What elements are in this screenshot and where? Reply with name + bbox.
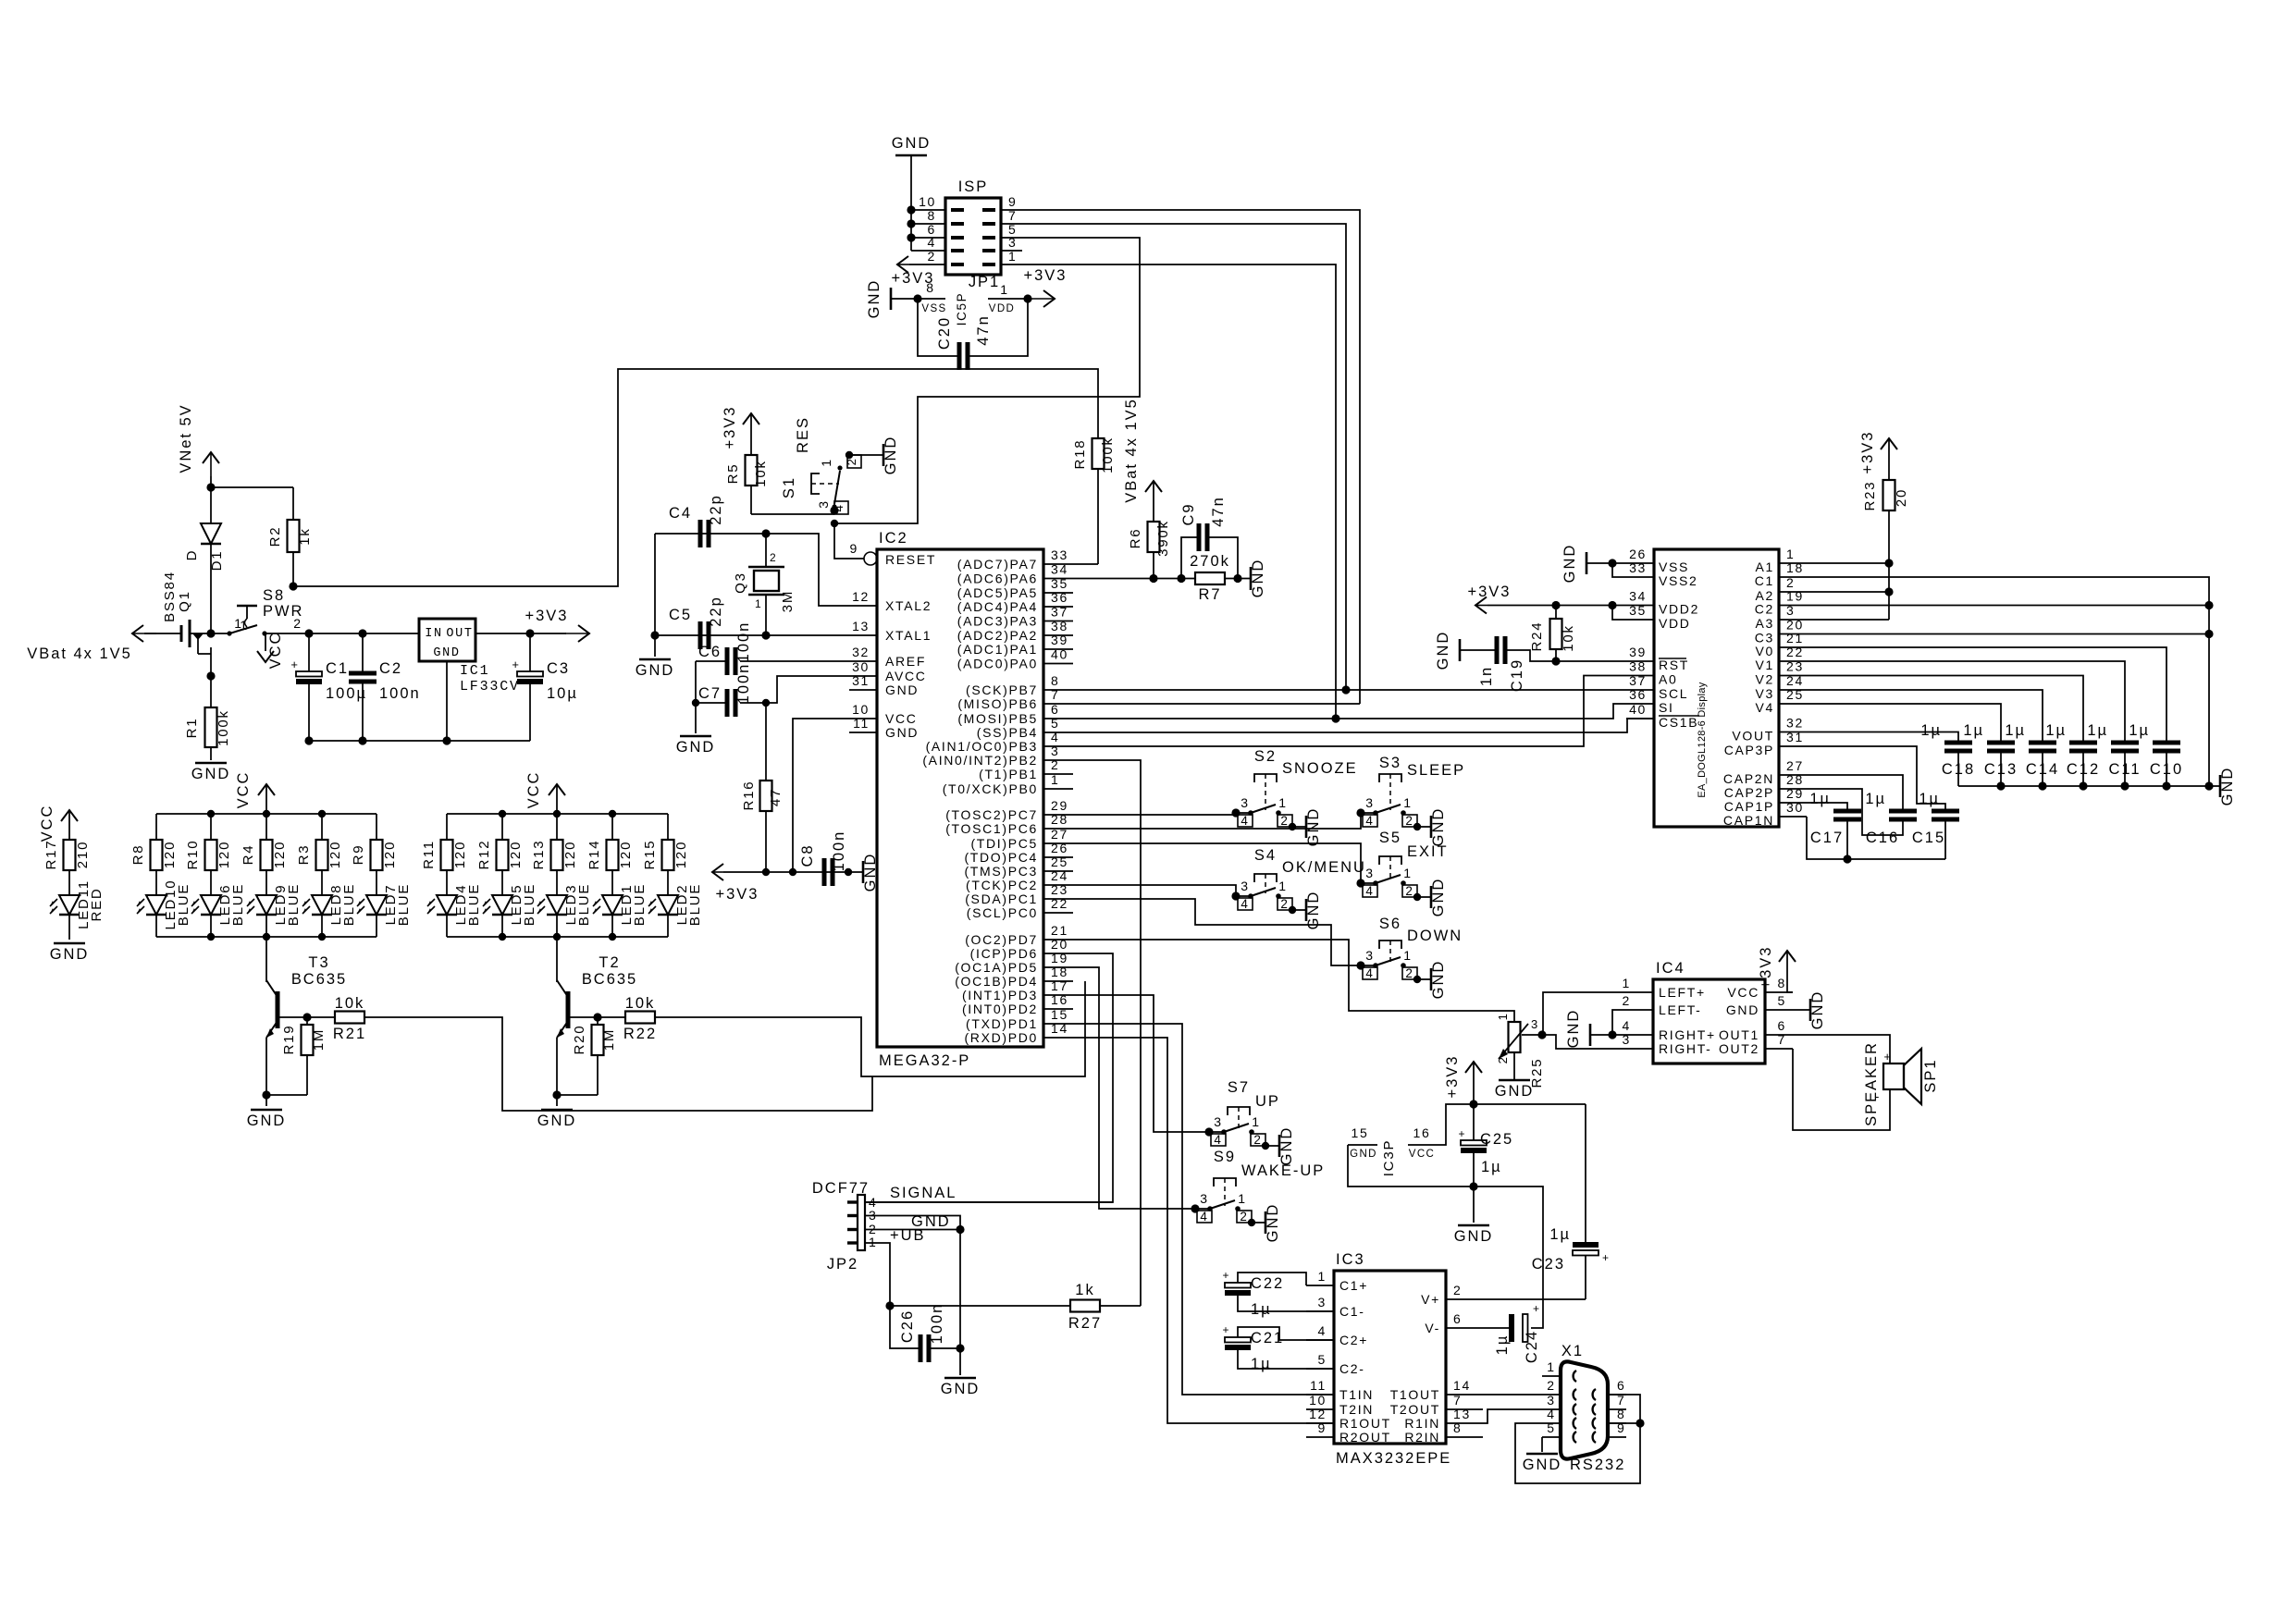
svg-text:GND: GND [537,1113,577,1129]
node VSS junction [1608,559,1616,567]
pin 32 VOUT display [1732,716,1807,744]
pin 15 (TXD)PD1 IC2 [966,1007,1073,1031]
svg-text:210: 210 [75,841,91,868]
svg-text:C17: C17 [1810,830,1844,846]
capacitor C17 [1809,791,1861,859]
pin 9 R2OUT IC3 [1306,1420,1391,1445]
wire PA6 row [1073,578,1195,580]
wire VCC16 to +3V3 [1438,1104,1586,1145]
svg-text:V0: V0 [1756,644,1774,658]
svg-text:9: 9 [1008,194,1017,209]
wire R22 to PD4 [655,981,1085,1076]
svg-text:9: 9 [1318,1420,1327,1435]
svg-text:R3: R3 [296,844,312,866]
net flag VCC down [257,632,284,670]
ground below R1 [191,763,231,782]
net flag +3V3 display [1468,584,1626,614]
switch S1 RES [781,416,883,514]
resistor R12 with LED LED5 [476,814,537,937]
capacitor C3 [512,633,577,741]
resistor R4 with LED LED9 [241,814,302,937]
node caps gnd rail [2162,781,2170,790]
svg-text:1: 1 [1051,772,1059,787]
svg-text:S3: S3 [1379,755,1401,771]
wire crystal gnd [654,534,656,635]
wire CAP2P to C16 bottom [1807,789,1903,835]
node C3 junction [2204,630,2213,638]
svg-text:2: 2 [1405,814,1413,828]
node SCK ISP junction [1341,685,1350,694]
svg-text:+3V3: +3V3 [716,886,759,903]
svg-text:C8: C8 [799,843,816,867]
svg-text:+: + [1223,1323,1230,1336]
svg-text:10k: 10k [1561,624,1576,652]
switch S2 SNOOZE [1231,748,1357,846]
svg-text:10: 10 [919,194,936,209]
wire PC7 to S2 [1073,814,1236,816]
svg-text:390k: 390k [1155,520,1171,557]
wire MOSI to SI [1073,704,1626,719]
svg-text:24: 24 [1051,868,1068,883]
svg-text:WAKE-UP: WAKE-UP [1241,1162,1325,1179]
svg-text:1k: 1k [297,527,313,545]
node VDD2 junction [1608,601,1616,609]
svg-text:2: 2 [845,458,858,466]
svg-text:C5: C5 [669,607,692,623]
svg-text:32: 32 [1786,716,1804,731]
svg-text:4: 4 [1318,1323,1327,1338]
svg-text:R23: R23 [1862,481,1878,511]
node C2 top [358,629,366,637]
svg-text:OUT1: OUT1 [1719,1027,1759,1042]
svg-text:18: 18 [1786,560,1804,575]
node LED rail top [263,810,270,818]
svg-text:100k: 100k [1100,436,1116,473]
svg-text:2: 2 [1405,884,1413,898]
svg-text:T2OUT: T2OUT [1390,1402,1440,1417]
pin 39 RST display [1626,645,1689,672]
net flag VCC for LED11 [39,805,78,842]
svg-text:GND: GND [1265,1203,1281,1243]
capacitor C9 [1180,496,1238,578]
ground below C25 [1454,1225,1494,1245]
svg-text:1µ: 1µ [1920,722,1942,739]
svg-text:GND: GND [883,436,899,475]
pin 3 A3 display [1756,603,1807,631]
svg-text:100n: 100n [929,1303,945,1345]
resistor R7 [1190,553,1251,603]
svg-text:RST: RST [1659,658,1689,672]
svg-text:(RXD)PD0: (RXD)PD0 [964,1030,1038,1045]
svg-text:GND: GND [1430,807,1447,847]
svg-text:A1: A1 [1756,559,1774,574]
svg-text:DOWN: DOWN [1407,928,1463,944]
node LED rail2 bottom [609,933,616,941]
node +UB junction [885,1301,894,1309]
svg-text:33: 33 [1629,560,1647,575]
pin 35 (ADC5)PA5 IC2 [957,576,1073,600]
svg-text:BLUE: BLUE [466,883,482,926]
svg-text:T1OUT: T1OUT [1390,1387,1440,1402]
svg-text:R10: R10 [185,840,201,870]
node LEFT- RIGHT+ junction [1608,1030,1616,1039]
switch S9 WAKE-UP [1191,1149,1325,1242]
svg-text:1: 1 [755,597,762,610]
wire R2IN stub [1474,1436,1483,1438]
svg-text:-: - [1875,1089,1881,1103]
diode D1 [184,487,225,638]
node LED rail2 top [609,810,616,818]
resistor R15 with LED LED2 [642,814,703,937]
svg-text:R5: R5 [725,463,741,485]
IC U IC2 MEGA32-P box [877,530,1043,1069]
svg-text:C1-: C1- [1339,1304,1365,1319]
svg-text:4: 4 [1241,814,1249,828]
node XTAL2 net [761,529,770,537]
svg-text:C2-: C2- [1339,1361,1365,1376]
svg-text:3: 3 [1365,866,1374,880]
pin 24 V3 display [1756,673,1807,701]
svg-text:GND: GND [1250,559,1266,598]
svg-text:2: 2 [1496,1056,1510,1064]
pin 7 (MISO)PB6 IC2 [957,687,1073,711]
svg-text:2: 2 [1280,897,1289,911]
wire SCK to SCL [1073,689,1626,691]
svg-text:IC4: IC4 [1656,960,1685,977]
svg-text:GND: GND [1726,1002,1759,1017]
svg-text:39: 39 [1629,645,1647,659]
pin 2 LEFT- IC4 [1623,993,1702,1017]
svg-text:R18: R18 [1072,439,1088,470]
svg-text:BLUE: BLUE [176,883,191,926]
svg-text:R9: R9 [351,844,366,866]
svg-text:C18: C18 [1942,761,1975,778]
node T2 emitter R20 [552,1090,561,1099]
svg-text:GND: GND [1430,960,1447,1000]
svg-text:(OC1B)PD4: (OC1B)PD4 [955,974,1038,989]
wire ground rail power [309,740,530,742]
svg-text:9: 9 [850,541,858,556]
wire V pin to C11 [1807,661,2125,743]
svg-text:3: 3 [1051,744,1059,758]
svg-text:22: 22 [1786,645,1804,659]
node caps gnd rail [2120,781,2129,790]
svg-text:+3V3: +3V3 [722,406,738,449]
svg-text:1µ: 1µ [2005,722,2026,739]
svg-text:(ADC3)PA3: (ADC3)PA3 [957,614,1038,629]
pin 5 (SS)PB4 IC2 [977,716,1073,740]
net flag +3V3 IC3 [1444,1055,1482,1104]
pin 27 CAP2N display [1723,758,1807,786]
wire X1 pin5 gnd [1541,1437,1543,1452]
pin 19 C2 display [1755,589,1807,617]
svg-text:R1OUT: R1OUT [1339,1416,1391,1431]
pin 8 (SCK)PB7 IC2 [966,673,1073,697]
pin 2 X1 [1542,1378,1576,1400]
ground at IC5P VSS [866,279,918,319]
transistor Q1 BSS84 [144,571,249,676]
svg-text:1: 1 [1547,1359,1555,1374]
wire PD1 to T1IN [1073,1024,1334,1395]
pin 1 A1 display [1756,547,1807,574]
ground above ISP [892,135,932,251]
svg-text:8: 8 [1453,1420,1462,1435]
svg-text:38: 38 [1051,619,1068,633]
svg-text:GND: GND [1523,1457,1562,1473]
svg-text:4: 4 [1200,1210,1208,1223]
wire C25 gnd [1473,1187,1475,1223]
svg-text:VCC: VCC [267,632,284,670]
svg-text:(T1)PB1: (T1)PB1 [979,767,1038,781]
svg-text:(T0/XCK)PB0: (T0/XCK)PB0 [943,781,1038,796]
svg-text:11: 11 [853,716,870,731]
svg-text:BLUE: BLUE [230,883,246,926]
svg-text:SLEEP: SLEEP [1407,762,1465,779]
svg-text:V1: V1 [1756,658,1774,672]
wire X1 pin8 [1608,1422,1640,1424]
svg-text:14: 14 [1051,1021,1068,1036]
svg-text:32: 32 [852,645,870,659]
wire JP2 pin1 +UB [864,1243,890,1306]
svg-text:31: 31 [852,673,870,688]
svg-text:GND: GND [1278,1126,1295,1166]
svg-text:29: 29 [1051,798,1068,813]
svg-text:SI: SI [1659,700,1674,715]
svg-text:13: 13 [1453,1407,1471,1421]
pin 26 VSS display [1626,547,1689,574]
pin 25 (TMS)PC3 IC2 [964,855,1073,879]
wire CAP3P to C15 [1807,746,1945,811]
resistor R10 with LED LED6 [185,814,246,937]
resistor R21 [307,995,366,1042]
ground below T3 [247,1110,287,1129]
svg-text:1: 1 [1252,1114,1260,1129]
svg-text:C13: C13 [1984,761,2018,778]
svg-text:UP: UP [1255,1093,1280,1110]
node MOSI ISP junction [1331,714,1339,722]
pin 7 OUT2 IC4 [1719,1032,1793,1056]
svg-text:C2+: C2+ [1339,1333,1368,1347]
wire PA7 to R18 [1073,563,1098,565]
svg-text:2: 2 [1253,1133,1262,1147]
node VCC rail [789,868,796,876]
svg-text:3: 3 [816,499,831,508]
svg-text:16: 16 [1051,992,1068,1007]
svg-text:VCC: VCC [39,805,56,842]
svg-text:R13: R13 [531,840,547,870]
pin 20 C3 display [1755,618,1807,646]
svg-text:1: 1 [1278,795,1287,810]
svg-text:GND: GND [1454,1228,1494,1245]
ground below C26 [941,1378,981,1397]
svg-text:VDD2: VDD2 [1659,602,1699,617]
svg-text:2: 2 [1547,1378,1555,1393]
svg-text:30: 30 [852,659,870,674]
svg-text:R17: R17 [43,840,59,870]
svg-text:+3V3: +3V3 [1859,431,1876,474]
svg-text:C14: C14 [2026,761,2059,778]
svg-text:(ADC7)PA7: (ADC7)PA7 [957,557,1038,572]
resistor R19 [266,1017,327,1095]
svg-text:2: 2 [1453,1283,1462,1297]
svg-text:GND: GND [892,135,932,152]
svg-text:38: 38 [1629,659,1647,674]
svg-text:8: 8 [926,280,934,295]
pin 34 VDD2 display [1626,589,1699,617]
svg-text:C7: C7 [698,685,722,702]
svg-text:D1: D1 [209,550,225,572]
node LED rail2 top [499,810,506,818]
svg-text:26: 26 [1629,547,1647,561]
net flag +3V3 IC4 [1758,946,1796,992]
pin 23 (SDA)PC1 IC2 [965,882,1073,906]
pin 39 (ADC1)PA1 IC2 [957,633,1073,657]
wire R5 to S1 [751,513,834,515]
svg-text:+3V3: +3V3 [1758,946,1774,990]
svg-text:3: 3 [1786,603,1795,618]
svg-text:BLUE: BLUE [286,883,302,926]
svg-text:T2: T2 [599,954,620,971]
wire CAP1N rail [1807,817,1945,859]
svg-text:1: 1 [1238,1191,1246,1206]
wire VNet to R2 [211,487,293,520]
svg-text:S9: S9 [1214,1149,1236,1165]
pin 13 XTAL1 [849,619,932,643]
node C25 top [1469,1100,1477,1108]
pin 1 JP1 [982,249,1022,264]
svg-text:GND: GND [885,682,919,697]
capacitor C7 [696,663,849,717]
node C1 top [304,629,313,637]
node S1 R5 junction [830,506,838,514]
svg-text:T3: T3 [308,954,329,971]
svg-text:BLUE: BLUE [341,883,357,926]
svg-text:C23: C23 [1532,1256,1565,1273]
svg-text:R2OUT: R2OUT [1339,1430,1391,1445]
svg-text:GND: GND [1565,1009,1582,1049]
wire display caps gnd rail [1958,785,2220,787]
svg-text:C12: C12 [2067,761,2100,778]
svg-text:1: 1 [1318,1269,1327,1284]
svg-text:24: 24 [1786,673,1804,688]
net flag VCC LED group 2 [525,771,565,814]
svg-text:CAP1P: CAP1P [1724,799,1774,814]
capacitor C10 [2129,722,2183,786]
wire IC1 OUT to +3V3 [475,633,566,634]
wire PD6 to DCF77 SIGNAL [864,953,1113,1202]
node caps gnd rail [1996,781,2005,790]
svg-text:BC635: BC635 [582,971,637,988]
resistor R9 with LED LED7 [351,814,412,937]
svg-text:3: 3 [1008,235,1017,250]
pin 11 T1IN IC3 [1306,1378,1374,1402]
ground at S1 [883,436,899,475]
svg-text:26: 26 [1051,841,1068,855]
wire C6 C7 gnd [695,661,697,733]
pin 8 JP1 [911,208,964,224]
svg-text:4: 4 [1241,897,1249,911]
svg-text:+: + [1883,1050,1892,1064]
svg-text:(SS)PB4: (SS)PB4 [977,725,1038,740]
pin 1 LEFT+ IC4 [1623,976,1706,1000]
pin 2 V+ IC3 [1421,1283,1474,1307]
pin 3 X1 [1542,1393,1576,1415]
svg-text:D: D [184,549,200,561]
wire JP2 pin3 [864,1216,960,1230]
capacitor C19 [1478,636,1626,692]
wire LED group1 top rail [156,813,376,815]
ground display caps [2219,767,2236,806]
pin 4 RIGHT+ IC4 [1623,1018,1716,1042]
wire PD3 to S7 [1073,995,1209,1132]
node LED rail2 bottom [499,933,506,941]
pin 20 (ICP)PD6 IC2 [970,937,1073,961]
node crystal gnd [650,631,659,639]
svg-text:GND: GND [866,279,883,319]
node ISP pin10 gnd [907,205,915,214]
svg-text:10k: 10k [625,995,656,1012]
svg-text:22: 22 [1051,896,1068,911]
node XTAL1 net [761,631,770,639]
svg-text:(OC1A)PD5: (OC1A)PD5 [955,960,1038,975]
svg-text:VBat 4x 1V5: VBat 4x 1V5 [1123,398,1140,503]
pin 9 JP1 [982,194,1022,210]
pin 40 (ADC0)PA0 IC2 [957,647,1073,671]
svg-text:GND: GND [1809,990,1826,1030]
wire V+ to C23 [1474,1298,1586,1300]
svg-text:X1: X1 [1562,1343,1584,1359]
svg-text:1n: 1n [1478,666,1495,686]
transistor T2 BC635 [557,937,637,1106]
svg-text:(TDI)PC5: (TDI)PC5 [970,836,1038,851]
svg-text:1µ: 1µ [1865,791,1886,807]
svg-text:+: + [1602,1251,1610,1264]
pin 3 JP1 [982,235,1022,251]
net flag VCC LED group 1 [235,771,275,814]
svg-text:RESET: RESET [885,552,936,567]
resistor R1 [184,671,231,760]
crystal Q3 3M [733,534,796,635]
svg-text:VCC: VCC [885,711,918,726]
svg-text:+UB: +UB [890,1227,926,1244]
svg-text:1: 1 [1403,866,1412,880]
pin 6 X1 [1593,1378,1626,1400]
svg-text:GND: GND [1562,544,1578,584]
switch S7 UP [1204,1079,1295,1165]
svg-text:MEGA32-P: MEGA32-P [879,1052,970,1069]
wire A1 A2 A3 anode [1807,563,1889,620]
wire R1IN to X1 pin3 [1474,1409,1542,1423]
node R7 right [1233,574,1241,583]
svg-text:C20: C20 [936,316,953,350]
svg-text:1: 1 [1008,249,1017,264]
svg-text:GND: GND [247,1113,287,1129]
label SIGNAL [890,1185,957,1201]
capacitor C20 [918,299,1028,370]
svg-text:+: + [1459,1127,1466,1140]
svg-text:120: 120 [216,841,232,868]
svg-text:2: 2 [1280,814,1289,828]
pin 21 V0 display [1756,631,1807,658]
svg-text:(MOSI)PB5: (MOSI)PB5 [957,711,1038,726]
svg-text:BLUE: BLUE [576,883,592,926]
svg-text:(ADC5)PA5: (ADC5)PA5 [957,585,1038,600]
svg-text:+3V3: +3V3 [1444,1055,1461,1099]
pin 6 V- IC3 [1425,1311,1474,1335]
svg-text:1: 1 [234,616,242,631]
wire SS to CS1B [1073,719,1654,732]
svg-text:R2IN: R2IN [1404,1430,1440,1445]
